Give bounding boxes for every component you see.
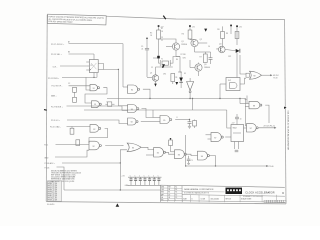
wire P2-38 bbox=[62, 162, 120, 164]
resistor R6 bbox=[188, 30, 192, 39]
logo Data General bbox=[226, 188, 243, 194]
title block top edge bbox=[160, 185, 284, 187]
capacitor C12 timing bbox=[235, 116, 239, 118]
wire U2 Q output bbox=[98, 64, 118, 70]
wire row6 bbox=[67, 126, 91, 128]
junction U17 bbox=[189, 98, 190, 99]
wire U15 in2 bbox=[245, 106, 249, 108]
wire U16 in1 bbox=[240, 55, 246, 74]
sheet top border bbox=[106, 16, 285, 19]
zone tick bottom arrow bbox=[116, 203, 120, 206]
wire U13 output bbox=[244, 127, 247, 129]
sheet right border bbox=[285, 19, 286, 204]
resistor R9 bbox=[193, 121, 197, 127]
wire row1 vertical drop bbox=[122, 44, 124, 87]
nand U3b bbox=[89, 141, 99, 150]
revision table bbox=[47, 181, 61, 201]
nand U6 bbox=[128, 105, 137, 113]
capacitor C8 bbox=[188, 121, 192, 123]
wire y98.5 drop to U14 bbox=[245, 99, 248, 126]
wire Q2 right bbox=[198, 42, 207, 44]
wire R6 down bbox=[190, 38, 195, 41]
wire U12 input2 bbox=[208, 138, 212, 140]
wire U13 timing stub1 bbox=[234, 142, 236, 150]
nand U5 bbox=[128, 85, 138, 94]
resistor R5 bbox=[157, 30, 161, 39]
wire U4 in2 riser bbox=[120, 150, 127, 163]
one-shot U13 box bbox=[231, 125, 244, 142]
wire R5 down bbox=[158, 39, 160, 58]
wire row2 drop to U2 bbox=[93, 54, 95, 60]
+5V dot C bbox=[236, 25, 238, 27]
resistor R10 pull-up bbox=[169, 140, 173, 146]
feedback vertical x185.7 bbox=[185, 135, 187, 166]
transistor Q3 bbox=[195, 64, 202, 71]
wire U3b output bbox=[105, 145, 123, 147]
junction U18 bbox=[219, 98, 220, 99]
wire osc joint4 bbox=[178, 71, 181, 73]
wire U9 output bbox=[165, 152, 175, 154]
capacitor C9 top dot bbox=[146, 38, 148, 40]
sheet left border bbox=[46, 15, 47, 202]
wire Q2 collector join bbox=[195, 51, 211, 53]
wire U1b output bbox=[105, 103, 107, 105]
wire R3 stub bbox=[71, 127, 73, 129]
nand U10 bbox=[175, 150, 185, 159]
title mid rule bbox=[182, 195, 285, 197]
resistor R12 bbox=[235, 32, 239, 39]
wire U11 output drop bbox=[209, 156, 215, 166]
diode CR5 blob bbox=[204, 29, 207, 32]
wire U15 in1 riser bbox=[239, 99, 241, 104]
wire Q3 emitter bbox=[198, 71, 200, 76]
wire row3 horizontal bbox=[62, 76, 97, 78]
or gate U4 bbox=[127, 143, 141, 152]
title lower cells bbox=[190, 195, 192, 202]
wire U15 output bbox=[265, 105, 269, 123]
flip-flop U2 body bbox=[89, 60, 98, 73]
wire U15 input stub up bbox=[246, 96, 248, 104]
flip-flop U2 pin ticks bbox=[86, 61, 89, 63]
+5V dot B bbox=[189, 25, 191, 27]
nand U9 bbox=[154, 148, 164, 157]
pull-up resistor R3 bbox=[70, 128, 74, 134]
wire row2b bbox=[60, 65, 86, 67]
wire U2 output drop bbox=[117, 69, 119, 105]
output arrow y166 bbox=[266, 165, 268, 167]
company cell underline bbox=[182, 191, 225, 193]
junction bus riser bbox=[192, 98, 193, 99]
wire U10 output bbox=[186, 154, 197, 155]
wire row1 into gate U5 bbox=[123, 86, 128, 88]
wire U18 output bbox=[240, 83, 242, 85]
wire U18 input bbox=[220, 83, 226, 85]
bus wire y98.5 bbox=[107, 98, 246, 100]
wire D1 bottom bbox=[180, 82, 182, 88]
wire osc mesh1 bbox=[153, 57, 159, 59]
+5V dot A bbox=[158, 25, 160, 27]
wire U6 output bbox=[142, 109, 154, 118]
wire y110 drop to U13 bbox=[227, 110, 231, 128]
nand U1a bbox=[90, 85, 98, 91]
wire U5 output bbox=[143, 89, 150, 98]
junction U11 out bbox=[215, 165, 216, 166]
wire C9 lower bbox=[146, 50, 148, 77]
capacitor C5 bbox=[188, 156, 190, 159]
ground C8 bbox=[188, 125, 191, 127]
wire R9 stubs bbox=[194, 120, 196, 121]
wire C12 stubs bbox=[236, 114, 238, 117]
wire row7 bbox=[67, 120, 128, 124]
or gate U16 bbox=[250, 71, 262, 79]
output arrow 4XCLK bbox=[270, 74, 272, 76]
title block divider x182 bbox=[181, 186, 183, 203]
nand U1b bbox=[92, 101, 100, 108]
wire U1a feedback bbox=[85, 88, 107, 103]
bus riser x192.5 bbox=[192, 99, 194, 111]
wire row5 bbox=[67, 106, 128, 110]
capacitor C10 bbox=[209, 57, 213, 59]
wire Q3 collector bbox=[198, 63, 200, 64]
junction U2 output bbox=[118, 69, 119, 70]
wire +5V D down bbox=[230, 26, 232, 31]
wire +5V C down bbox=[236, 27, 238, 45]
pull-up resistor R2 bbox=[73, 97, 77, 102]
diode D1 bbox=[179, 78, 183, 82]
transistor Q4 bbox=[219, 46, 226, 53]
pull-up resistor R1 bbox=[73, 87, 77, 92]
cap row top rail bbox=[128, 176, 162, 178]
wire U12 input1 bbox=[206, 134, 212, 136]
wire +5V A bbox=[158, 27, 160, 30]
buffer gate U17 down bbox=[187, 82, 194, 91]
bus wire y110 bbox=[84, 109, 227, 111]
bypass capacitors C13-C19 bbox=[130, 177, 132, 179]
resistor R11 bbox=[171, 74, 175, 82]
transistor Q1 bbox=[172, 43, 179, 50]
sheet bottom border bbox=[46, 202, 286, 204]
zone tick left bbox=[44, 109, 47, 112]
flip-flop U2 inner marks bbox=[91, 63, 96, 69]
wire Q1 base bbox=[166, 46, 172, 48]
nand U12 bbox=[211, 133, 221, 142]
resistor R7 bbox=[203, 54, 207, 63]
wire row1 horizontal bbox=[69, 43, 124, 45]
zone tick right margin bbox=[284, 107, 287, 109]
wire U7 output bbox=[141, 121, 153, 123]
output wire y166 bbox=[186, 165, 268, 167]
wire R1-R2 stem bbox=[74, 92, 76, 97]
wire Q1 collector bbox=[159, 39, 177, 43]
wire row3 drop2 bbox=[96, 73, 98, 77]
title block row line bbox=[161, 200, 285, 202]
nand U15 bbox=[249, 101, 260, 108]
wire osc y67 bbox=[156, 66, 173, 68]
diode CR3 blob bbox=[157, 56, 160, 59]
wire U16 in2 bbox=[242, 78, 246, 84]
wire Q3 base riser bbox=[189, 60, 191, 68]
title approvals grid bbox=[161, 187, 183, 189]
wire Q5 emitter bbox=[155, 81, 157, 86]
+5V dot R10 bbox=[170, 138, 172, 140]
+5V dot D bbox=[230, 25, 232, 27]
wire osc joint3 bbox=[180, 57, 182, 73]
wire row3 drop bbox=[86, 77, 90, 90]
pull-up resistor R4 bbox=[76, 140, 80, 146]
one-shot U13 inner tick bbox=[233, 132, 241, 134]
wire R11 bottom bbox=[172, 82, 174, 85]
wire U18 input riser bbox=[219, 84, 221, 99]
zone tick top bbox=[163, 16, 166, 20]
nand U8 bbox=[160, 116, 170, 124]
wire row9 bbox=[55, 150, 89, 157]
wire U13 timing stub2 bbox=[238, 142, 240, 150]
notes box bbox=[47, 14, 106, 25]
wire U8 output bbox=[175, 119, 189, 121]
wire U2 Qbar stub bbox=[98, 69, 103, 71]
wire U14 output bbox=[259, 127, 276, 129]
capacitor C11 timing bbox=[235, 149, 239, 151]
transistor Q5 bbox=[152, 75, 158, 81]
wire Q3 base bbox=[190, 67, 195, 69]
delay box U18 bbox=[226, 78, 240, 91]
wire Y1 right bbox=[170, 57, 180, 64]
capacitor C9 bbox=[145, 47, 149, 49]
scan speckle noise overlay bbox=[40, 8, 292, 210]
flip-flop U2 clock wedge bbox=[89, 69, 91, 71]
junction C8 bbox=[189, 119, 190, 120]
cap row bottom rail bbox=[128, 184, 162, 186]
junction U15 bbox=[239, 98, 240, 99]
resistor R8 bbox=[221, 32, 225, 39]
diode D4 blob bbox=[175, 82, 178, 85]
wire row2 horizontal bbox=[69, 53, 95, 55]
input pack U16 bbox=[246, 73, 249, 77]
wire row4 into U1a bbox=[69, 85, 91, 87]
wire U17 input bbox=[189, 78, 191, 82]
junction U5 out bbox=[149, 98, 150, 99]
wire row8 bbox=[56, 144, 90, 146]
junction U4 riser bbox=[120, 162, 121, 163]
wire +5V B bbox=[189, 27, 191, 30]
crystal Y1 plates bbox=[159, 60, 161, 66]
wire U16 output bbox=[262, 74, 273, 76]
diode D3 blob bbox=[154, 84, 157, 87]
wire U8 inputs bbox=[153, 117, 160, 119]
junction feedback bbox=[185, 165, 186, 166]
wire Q5 base bbox=[147, 77, 152, 79]
delay box inner gate bbox=[230, 83, 238, 89]
wire P2-38 drop bbox=[119, 163, 121, 190]
wire D2 down bbox=[236, 53, 238, 78]
crystal Y1 body bbox=[162, 61, 169, 65]
output arrow 2XCLK bbox=[274, 127, 276, 129]
diode D2 bbox=[236, 49, 240, 53]
nand U11 bbox=[198, 151, 208, 160]
wire Q4 right bbox=[225, 50, 236, 51]
wire Y1 left bbox=[159, 58, 161, 63]
bottom bus wire y190 bbox=[64, 189, 160, 191]
wire C9 upper bbox=[146, 38, 148, 48]
wire R7 top bbox=[204, 52, 206, 54]
sheet scale ruler cells bbox=[264, 200, 266, 203]
wire C8 stub bbox=[189, 120, 191, 122]
junction bottom bus bbox=[120, 189, 121, 190]
diode CR4 blob bbox=[162, 64, 165, 67]
wire FF bottom pin bbox=[93, 73, 95, 78]
wire R8 up bbox=[222, 26, 224, 31]
wire Q2 emitter bbox=[194, 47, 196, 52]
wire into gate U6 bbox=[118, 105, 127, 107]
wire U15 in1 bbox=[240, 103, 249, 105]
wire R10 stub bbox=[170, 146, 172, 152]
wire osc stub2 bbox=[176, 56, 180, 58]
wire Q5 collector bbox=[155, 67, 157, 75]
junction FF bottom bbox=[93, 77, 94, 78]
wire Q1 emitter bbox=[175, 50, 177, 57]
title block left edge bbox=[159, 185, 161, 202]
wire C10 stubs bbox=[210, 52, 212, 58]
wire R8 down bbox=[222, 39, 224, 47]
wire P2-36 bbox=[57, 167, 65, 190]
wire U17 output bbox=[189, 93, 191, 99]
wire U9 in2 bbox=[146, 154, 154, 156]
nand U3a bbox=[90, 125, 99, 133]
wire U4 output bbox=[141, 147, 153, 149]
transistor Q2 bbox=[191, 39, 198, 46]
junction osc y67 bbox=[162, 66, 164, 68]
wire D1 top bbox=[180, 72, 182, 78]
wire U3a cross-couple bbox=[89, 128, 108, 143]
wire U12 output bbox=[225, 136, 231, 138]
nand U7 bbox=[128, 118, 136, 125]
wire loop above U8 bbox=[152, 110, 154, 118]
component box after U1b bbox=[108, 102, 112, 107]
nand U14 bbox=[247, 124, 257, 132]
